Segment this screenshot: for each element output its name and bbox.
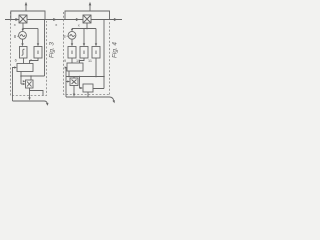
wire: B1 to wide block xyxy=(23,58,25,64)
inter-figure arrowhead xyxy=(53,18,57,21)
wire: arrow into oscillator fig4 xyxy=(71,29,73,31)
antenna arrow fig3 (up) xyxy=(25,4,27,11)
wire: arrow into box A left xyxy=(66,81,69,83)
svg-text:11: 11 xyxy=(88,59,92,63)
wire: C1 to wide block xyxy=(71,58,73,63)
wire: down to block B2 xyxy=(37,29,39,46)
wire: small box right loop xyxy=(30,91,44,96)
svg-text:7: 7 xyxy=(30,58,33,63)
wire: feedback left fig3 xyxy=(13,68,16,102)
wire: bypass loop fig3 xyxy=(11,11,45,20)
wire: box A down arrow xyxy=(73,86,75,96)
wire: horizontal y=76.5 fig4 xyxy=(66,76,104,78)
wire: drop into box A top xyxy=(73,77,75,79)
wire: arrow into small box fig3 xyxy=(21,83,24,85)
wire: wide block down fig4 xyxy=(68,71,70,77)
wire: C2 to wide block xyxy=(80,58,85,63)
wire: distribution y=28.5 fig4 xyxy=(72,28,96,30)
wire: bus to left y=76 xyxy=(21,75,45,77)
wire: output line fig4 xyxy=(66,96,110,98)
svg-text:9: 9 xyxy=(64,59,66,63)
wire: bypass loop fig4 xyxy=(65,11,110,20)
wire: mixer output down xyxy=(22,23,24,29)
dashed enclosure fig3 xyxy=(11,12,47,96)
block C1 fig4 xyxy=(68,47,76,59)
wire: drop into small box top xyxy=(30,76,32,80)
block W1 fig3 (wide) xyxy=(17,64,33,72)
dashed enclosure fig4 xyxy=(64,12,110,95)
wire: branch right at y=28.5 xyxy=(23,28,38,30)
oscillator O2 fig4 xyxy=(68,31,76,39)
block B1 fig3 (integrator) xyxy=(20,47,28,59)
svg-text:x: x xyxy=(14,22,16,27)
wire: to box B xyxy=(80,77,82,89)
node junction fig3 xyxy=(22,28,24,30)
block B2 fig3 xyxy=(34,47,42,59)
wire: wide block down xyxy=(20,72,22,85)
block S2 fig4 (box A) xyxy=(70,78,78,86)
svg-text:8: 8 xyxy=(63,34,66,39)
antenna arrow fig4 (up) xyxy=(89,4,91,11)
wire: oscillator to block C1 xyxy=(71,39,73,45)
block S1 fig3 (small box) xyxy=(26,80,34,88)
input arrowhead fig4 xyxy=(76,18,80,21)
svg-text:Fig. 3: Fig. 3 xyxy=(49,42,56,58)
wire: feedback left fig4 xyxy=(65,68,67,98)
oscillator O1 fig3 xyxy=(19,31,27,39)
wire: oscillator to block B1 xyxy=(22,39,24,45)
wire: down to block C3 xyxy=(95,29,97,46)
wire: B2 to wide block xyxy=(30,58,39,64)
block W2 fig4 (wide) xyxy=(67,63,83,71)
wire: box B down xyxy=(87,92,89,97)
block S3 fig4 (box B) xyxy=(83,84,93,92)
block C3 fig4 xyxy=(92,47,100,59)
hook arrow fig4 xyxy=(110,97,114,101)
wire: arrow into oscillator xyxy=(22,29,24,31)
wire: down to block C2 xyxy=(83,29,85,46)
block C2 fig4 xyxy=(80,47,88,59)
mixer M1 fig3 xyxy=(19,15,27,23)
wire: arrow2 into small box fig3 xyxy=(23,80,26,82)
wire: output line fig3 xyxy=(13,100,45,102)
mixer M2 fig4 xyxy=(83,15,91,23)
svg-text:6: 6 xyxy=(15,58,18,63)
svg-text:Fig. 4: Fig. 4 xyxy=(112,42,119,58)
node junction at y=76 xyxy=(20,75,22,77)
wire: C3 down to h-line xyxy=(95,58,97,77)
input arrowhead fig3 xyxy=(15,18,19,21)
output arrowhead fig4 xyxy=(114,18,118,21)
wire: main signal line y=19.5 xyxy=(5,19,122,21)
wire: small box down arrow xyxy=(29,88,31,99)
wire: bus from main line down fig4 xyxy=(103,20,105,77)
wire: box B right to bus xyxy=(93,77,104,89)
wire: bus from main line down fig3 xyxy=(44,20,46,77)
svg-text:x: x xyxy=(55,22,57,27)
svg-text:x: x xyxy=(78,22,80,27)
svg-text:8: 8 xyxy=(14,34,17,39)
hook arrow fig3 xyxy=(44,101,47,104)
wire: mixer output down fig4 xyxy=(86,23,88,29)
